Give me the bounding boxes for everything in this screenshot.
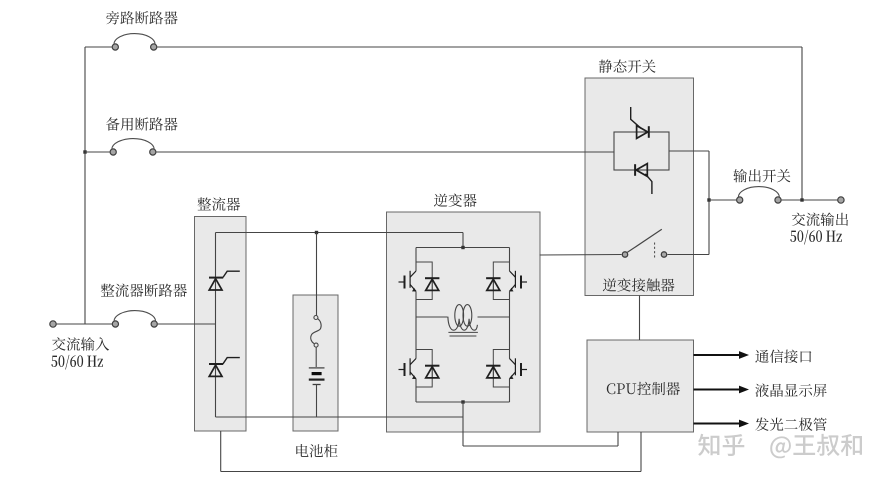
- wire DC+ bus: [216, 232, 464, 234]
- wire backup left: [85, 151, 110, 153]
- arrow to LCD: [694, 386, 750, 394]
- wire bridge mid left: [416, 316, 448, 318]
- wire SS input: [585, 151, 614, 153]
- wire battery bottom: [316, 384, 318, 417]
- SS thyristor V3: [631, 107, 649, 138]
- label inverter: [434, 194, 477, 208]
- label battery cabinet: [296, 444, 337, 457]
- inverter box: [387, 212, 541, 432]
- wire bridge mid right: [478, 316, 510, 318]
- label rectifier breaker: [101, 284, 187, 298]
- label CPU controller: [607, 382, 680, 395]
- wire bridge right leg: [509, 248, 511, 403]
- label comm port: [755, 350, 811, 364]
- wire breaker to rectifier: [158, 323, 216, 325]
- wire DC- bus: [216, 416, 463, 418]
- wire contactor to output: [668, 254, 710, 256]
- battery GB: [309, 368, 325, 385]
- wire bridge bottom drop: [462, 402, 464, 446]
- IGBT VT1 with diode: [399, 262, 440, 300]
- node backup tap: [83, 150, 86, 153]
- battery cabinet box: [293, 295, 338, 431]
- battery flexible link: [311, 316, 321, 348]
- IGBT VT3 with diode: [399, 350, 440, 388]
- wire left vertical bus: [84, 47, 86, 324]
- rectifier box: [195, 217, 247, 432]
- label rectifier: [198, 197, 241, 211]
- CPU controller box: [587, 340, 694, 432]
- wire contactor box to CPU: [639, 296, 641, 341]
- node bypass join: [800, 198, 803, 201]
- rectifier breaker CB3: [112, 311, 157, 327]
- output switch CB4: [737, 187, 782, 204]
- node bridge top feed: [461, 246, 464, 249]
- wire output left: [709, 199, 736, 201]
- label LED: [755, 418, 827, 432]
- label inverter contactor: [603, 278, 675, 292]
- arrow to LED: [694, 420, 750, 428]
- label static switch: [599, 60, 656, 73]
- label LCD display: [755, 384, 826, 398]
- wire rectifier feedback: [221, 432, 641, 472]
- AC output terminal: [838, 197, 844, 203]
- AC input terminal: [50, 321, 56, 327]
- wire SS output: [669, 150, 709, 152]
- wire bridge left leg: [415, 248, 417, 403]
- inductor L1: [448, 305, 478, 336]
- SS thyristor V4: [635, 164, 652, 194]
- label backup breaker: [106, 117, 178, 130]
- label 50/60 Hz input: [51, 355, 103, 370]
- label output switch: [733, 169, 790, 183]
- wire bypass drop to output: [801, 47, 803, 201]
- wire inverter feedback: [463, 432, 618, 446]
- wire DC+ drop: [462, 233, 464, 249]
- wire rectifier SCR string: [215, 233, 217, 418]
- thyristor V2: [209, 358, 240, 377]
- node battery tap: [315, 231, 318, 234]
- wire AC input: [56, 323, 112, 325]
- wire bypass right: [157, 46, 802, 48]
- label AC input: [52, 337, 109, 351]
- bypass breaker CB1: [112, 34, 157, 51]
- node bridge bottom: [461, 400, 464, 403]
- node output junction: [707, 198, 710, 201]
- wire rectifier stub: [220, 431, 222, 472]
- IGBT VT4 with diode: [486, 350, 527, 388]
- label AC output: [792, 213, 848, 227]
- wire output right: [781, 199, 837, 201]
- wire inverter to contactor: [540, 254, 622, 257]
- wire bypass left: [85, 46, 112, 48]
- wire backup to static switch: [156, 151, 585, 153]
- arrow to comm port: [694, 351, 750, 359]
- label bypass breaker: [106, 11, 177, 25]
- backup breaker CB2: [110, 139, 156, 155]
- wire battery top: [316, 233, 318, 316]
- wire SS output drop: [708, 151, 710, 255]
- IGBT VT2 with diode: [486, 262, 527, 300]
- inverter contactor KM: [622, 229, 666, 257]
- wire battery mid: [315, 347, 317, 367]
- static switch box: [585, 78, 694, 296]
- wire bridge top rail: [416, 247, 510, 249]
- wire bridge bottom rail: [416, 401, 510, 403]
- SS thyristor loop: [614, 132, 669, 170]
- thyristor V1: [209, 271, 240, 290]
- watermark zhihu: [698, 434, 862, 459]
- label 50/60 Hz output: [790, 230, 842, 245]
